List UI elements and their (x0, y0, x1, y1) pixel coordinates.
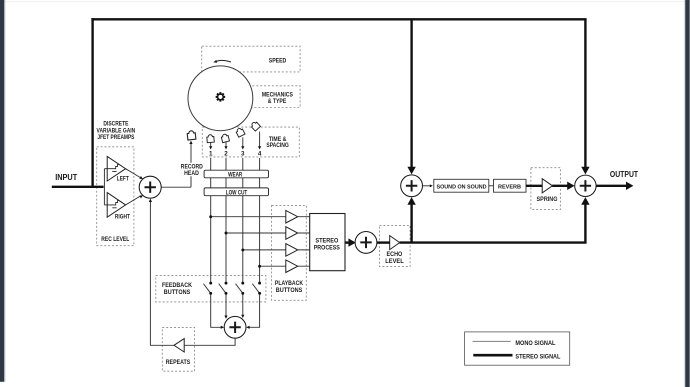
wire playback line 2 (225, 158, 227, 283)
wire switch3 to feedback node (242, 293, 244, 315)
arrow echo up into output node (581, 197, 589, 205)
svg-text:INPUT: INPUT (55, 173, 77, 182)
junction dot branch 1 (209, 215, 212, 218)
switch 3 terminal dots (241, 282, 244, 285)
svg-text:PLAYBACK: PLAYBACK (275, 280, 304, 287)
svg-text:SPACING: SPACING (266, 142, 289, 149)
LOW CUT bar (204, 188, 268, 196)
junction dot branch 3 (241, 248, 244, 251)
svg-text:2: 2 (224, 150, 228, 157)
STEREO PROCESS block (310, 214, 345, 271)
stereo wire stereo process to node (345, 241, 349, 243)
svg-text:LEFT: LEFT (117, 176, 129, 183)
svg-text:& TYPE: & TYPE (268, 98, 287, 105)
playback buffer 4 (286, 260, 298, 273)
arrow switch4 into feedback node (246, 326, 249, 329)
repeats attenuator triangle (174, 339, 184, 352)
SPRING dashed box (531, 168, 561, 210)
wire playback line 3 (242, 158, 244, 283)
REVERB block (494, 179, 527, 192)
summing node sound on sound (401, 175, 423, 197)
arrow right preamp into node (139, 195, 143, 198)
legend stereo sample line (473, 354, 512, 357)
svg-text:JFET PREAMPS: JFET PREAMPS (97, 134, 134, 141)
arrow stereo process into node (348, 238, 355, 246)
stereo wire node to echo level (376, 241, 390, 243)
arrow to number 2 (224, 146, 227, 149)
stereo wire output (596, 185, 627, 187)
switch 1 terminal dots (209, 282, 212, 285)
summing node feedback (224, 316, 246, 338)
arrow to number 1 (209, 146, 212, 149)
svg-text:HEAD: HEAD (184, 170, 199, 177)
svg-text:REVERB: REVERB (498, 185, 521, 191)
stereo wire echo bus (400, 201, 587, 244)
svg-text:BUTTONS: BUTTONS (276, 287, 303, 294)
playback head 4 (250, 121, 260, 131)
wire sound on sound to reverb (489, 185, 494, 187)
wire repeats to record node riser (150, 202, 174, 346)
svg-text:SPEED: SPEED (269, 58, 287, 65)
echo level amp triangle (390, 236, 400, 250)
left preamp JFET symbol (104, 164, 119, 171)
svg-text:WEAR: WEAR (228, 172, 243, 179)
stereo wire reverb to spring (526, 185, 542, 187)
stereo wire INPUT (52, 186, 104, 188)
record head (187, 130, 196, 140)
arrow echo up into sos node (407, 197, 415, 205)
MECHANICS & TYPE control dashed box (202, 86, 300, 108)
arrow spring into output node (567, 182, 574, 190)
summing node wet mix (355, 232, 377, 254)
PLAYBACK BUTTONS dashed box (272, 205, 307, 300)
wire branch 3 to playback button (243, 249, 286, 251)
rotation direction arrow (216, 60, 231, 62)
svg-text:PROCESS: PROCESS (314, 245, 340, 252)
REPEATS dashed box (162, 327, 194, 371)
SPEED control dashed box (202, 46, 300, 72)
arrow switch2 into feedback node (224, 316, 227, 319)
arrow to number 4 (258, 146, 261, 149)
wire branch 2 to playback button (226, 232, 286, 234)
svg-text:RIGHT: RIGHT (115, 214, 130, 221)
wire buffers to stereo process (298, 217, 310, 267)
wire record-node to record head riser (161, 144, 191, 188)
wire playback line 1 (210, 158, 212, 283)
arrow to number 3 (241, 146, 244, 149)
preamps dashed box (97, 147, 134, 246)
switch blade 3 (236, 284, 243, 294)
switch blade 2 (219, 284, 226, 294)
preamp LEFT triangle (107, 156, 125, 181)
switch blade 4 (252, 284, 259, 294)
playback head 2 (221, 133, 230, 142)
playback buffer 1 (286, 210, 298, 223)
summing node record (139, 176, 161, 198)
svg-text:LOW CUT: LOW CUT (226, 190, 248, 197)
svg-text:REPEATS: REPEATS (166, 359, 191, 366)
wire feedback node to repeats (184, 338, 235, 345)
preamp RIGHT triangle (107, 193, 125, 218)
arrow dry into sos node (407, 167, 415, 175)
svg-text:ECHO: ECHO (387, 251, 403, 258)
switch 4 terminal dots (258, 282, 261, 285)
svg-text:MONO SIGNAL: MONO SIGNAL (515, 340, 555, 347)
arrow left preamp into node (139, 176, 143, 179)
switch blade 1 (203, 284, 210, 294)
wire left preamp to record node (126, 169, 142, 178)
dark page edge right (685, 0, 690, 387)
right preamp JFET symbol (104, 201, 119, 208)
wire branch 4 to playback button (260, 265, 286, 267)
wire branch 1 to playback button (211, 216, 286, 218)
arrow dry into output node (581, 167, 589, 175)
stereo wire top dry line (91, 18, 586, 20)
playback head 3 (235, 127, 245, 137)
playback buffer 2 (286, 227, 298, 240)
wire right preamp to record node (126, 196, 142, 205)
svg-text:3: 3 (241, 150, 245, 157)
FEEDBACK BUTTONS dashed box (156, 275, 266, 302)
switch 2 terminal dots (225, 282, 228, 285)
dark page edge left (0, 0, 4, 382)
arrow repeats return into record node (149, 199, 152, 202)
svg-text:STEREO: STEREO (315, 237, 338, 244)
playback buffer 3 (286, 244, 298, 257)
wire head1 to number (210, 142, 212, 146)
motor gear icon (216, 92, 226, 102)
svg-text:STEREO SIGNAL: STEREO SIGNAL (515, 354, 560, 361)
junction dot branch 4 (258, 265, 261, 268)
svg-text:4: 4 (258, 150, 262, 157)
wire switch2 to feedback node (225, 293, 227, 315)
ECHO LEVEL dashed box (380, 225, 411, 266)
wire switch1 to feedback node (211, 293, 221, 327)
wire input splitter vertical (103, 169, 105, 205)
stereo wire dry drop to output node (584, 19, 586, 170)
legend mono sample line (473, 340, 511, 342)
svg-text:SPRING: SPRING (537, 196, 558, 203)
spring amp triangle (542, 179, 552, 193)
wire playback line 4 (259, 158, 261, 283)
wire head3 to number (242, 137, 244, 146)
wire sos-node to sound on sound (423, 185, 431, 187)
legend box (465, 332, 570, 365)
svg-text:LEVEL: LEVEL (385, 258, 404, 265)
svg-text:OUTPUT: OUTPUT (610, 170, 638, 179)
arrow switch3 into feedback node (241, 315, 244, 318)
svg-text:SOUND ON SOUND: SOUND ON SOUND (437, 185, 487, 191)
WEAR bar (204, 170, 268, 178)
stereo wire dry drop to sos node (410, 19, 412, 170)
svg-text:REC LEVEL: REC LEVEL (101, 236, 129, 243)
tape reel circle (188, 66, 253, 131)
svg-text:BUTTONS: BUTTONS (164, 289, 191, 296)
arrow into sound on sound (430, 184, 433, 187)
summing node output (575, 175, 596, 196)
wire head2 to number (225, 142, 227, 147)
SOUND ON SOUND block (434, 179, 489, 192)
svg-text:1: 1 (209, 150, 213, 157)
junction dot branch 2 (225, 232, 228, 235)
TIME & SPACING control dashed box (202, 127, 299, 157)
arrow into record head (189, 141, 192, 144)
arrow switch1 into feedback node (221, 326, 224, 329)
stereo wire spring to output node (552, 185, 567, 187)
stereo wire dry riser (91, 18, 93, 188)
wire head4 to number (259, 132, 261, 147)
dark page edge top (0, 0, 690, 3)
wire switch4 to feedback node (249, 293, 259, 327)
arrow OUTPUT (626, 182, 633, 190)
playback head 1 (207, 134, 215, 142)
